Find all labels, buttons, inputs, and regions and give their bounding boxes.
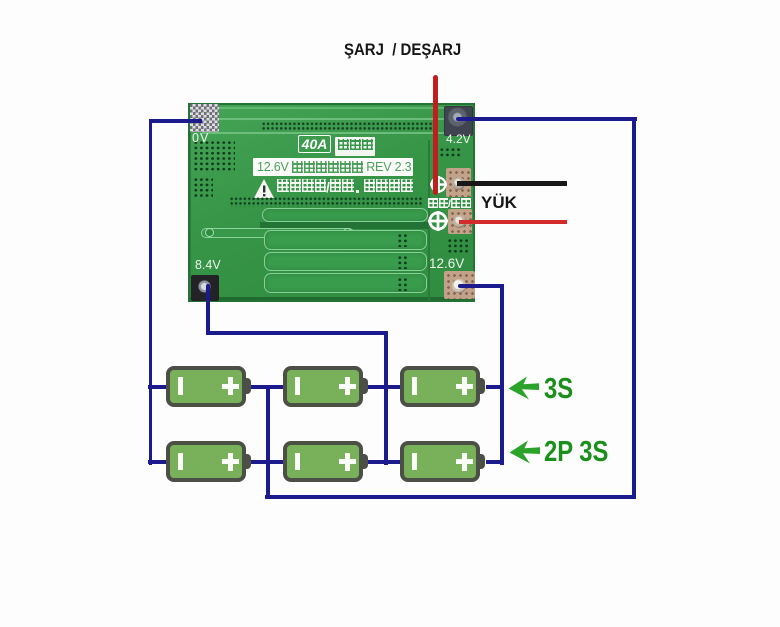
label 4.2V (446, 132, 471, 146)
via rows top (261, 121, 433, 131)
label 0V (192, 131, 209, 145)
trace bar3 (264, 252, 427, 272)
trace bar4 (264, 273, 427, 293)
pad P- hole (452, 177, 465, 190)
board top highlight (190, 107, 473, 109)
wire 12.6V tap vertical (500, 284, 504, 465)
wire row1 B3 plus lead (486, 385, 502, 389)
battery B4 (166, 441, 246, 482)
pad P+ discharge (448, 209, 472, 234)
BMS board (188, 103, 475, 302)
wire 12.6V pad run (458, 284, 503, 288)
battery B6 (400, 441, 480, 482)
label YUK (481, 193, 517, 213)
via band middle (229, 196, 422, 207)
wire stub 12.6V over board (458, 284, 476, 288)
pad 8.4V (191, 275, 219, 301)
label SARJ/DESARJ (344, 40, 564, 60)
symbol circle-cross 2 (428, 211, 448, 231)
battery B5 (283, 441, 363, 482)
wire 4.2V pad to right rail (456, 117, 637, 121)
bar4 vias (396, 276, 407, 291)
wire mid vertical node 4.2V tap (266, 385, 270, 498)
pad 4.2V (444, 106, 473, 136)
trace line top2 (202, 132, 466, 134)
battery B3 (400, 366, 480, 407)
wire row2 B4+ to B5- (249, 460, 285, 464)
label junhengchong box (335, 137, 375, 156)
label 40A box (298, 135, 331, 153)
wire charge red vertical (433, 75, 438, 195)
trace line top1 (216, 118, 466, 120)
trace pad circle right (343, 228, 352, 237)
label REV box (253, 158, 413, 176)
wire 8.4V pad drop (206, 288, 210, 334)
wire left rail vertical (149, 119, 153, 465)
pad P+ hole (453, 215, 466, 228)
pad 12.6V (444, 271, 475, 299)
wire row2 B4 minus lead (148, 460, 170, 464)
wire row1 B1+ to B2- (249, 385, 285, 389)
wire load black (457, 181, 567, 186)
via grid left B (192, 176, 213, 197)
battery B1 (166, 366, 246, 407)
label 3S (544, 373, 573, 406)
label 2P 3S (544, 436, 608, 469)
dark strip under bar1 (260, 222, 428, 230)
via grid right top (438, 146, 462, 157)
warning text (277, 179, 413, 198)
via grid left A (192, 139, 235, 173)
wire row1 B1 minus lead (148, 385, 170, 389)
wire row1 B2+ to B3- (366, 385, 402, 389)
wire stub 8.4V over board (206, 284, 210, 303)
wire discharge red horizontal (459, 220, 567, 224)
via grid right mid (446, 237, 470, 254)
symbol circle-cross 1 (430, 176, 447, 193)
wire row2 B6 plus lead (486, 460, 502, 464)
wire row2 B5+ to B6- (366, 460, 402, 464)
label charge/discharge (428, 198, 471, 216)
wire 0V pad to left rail (149, 119, 206, 123)
wire stub 4.2V over board (456, 117, 476, 121)
bar2 vias (396, 232, 407, 247)
seam right column (428, 140, 430, 300)
trace bar1 (262, 208, 428, 222)
arrow 2P3S (509, 440, 541, 464)
pad 12.6V hole (452, 279, 466, 293)
wire right rail vertical (632, 117, 636, 499)
pad P- charge (446, 168, 471, 197)
arrow 3S (508, 376, 540, 400)
battery B2 (283, 366, 363, 407)
trace thin with pads (201, 228, 354, 238)
trace pad circle left (205, 228, 214, 237)
trace bar2 (264, 230, 427, 251)
warning triangle (254, 179, 274, 198)
label 8.4V (195, 258, 221, 272)
wire 8.4V horizontal run (206, 331, 388, 335)
label 12.6V (429, 256, 464, 271)
wire stub 0V over board (188, 119, 202, 123)
wire 8.4V tap vertical (384, 331, 388, 465)
wire bottom rail (265, 495, 636, 499)
bar3 vias (396, 254, 407, 269)
pad 0V (190, 104, 219, 132)
